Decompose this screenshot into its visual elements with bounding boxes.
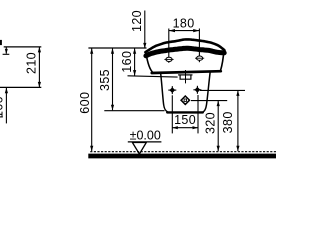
dimension 150 extension lines [171, 95, 173, 133]
datum underline [128, 141, 162, 143]
svg-text:355: 355 [98, 69, 112, 91]
extension line y110.7 [104, 110, 164, 112]
overflow tab centerline [185, 70, 187, 83]
svg-text:150: 150 [174, 113, 196, 127]
pedestal right edge [202, 72, 210, 113]
extension tick y54 left [3, 53, 10, 55]
pedestal hole upper-left [168, 86, 176, 94]
basin rim dome [145, 39, 224, 52]
svg-text:±0.00: ±0.00 [130, 128, 161, 142]
left lower dimension line with up arrow [5, 88, 7, 124]
dimension 320 line [217, 101, 219, 152]
pedestal hole center [181, 96, 190, 105]
extension line y87.4 left [0, 86, 41, 88]
dimension 120 line with down arrow [144, 11, 146, 49]
svg-text:120: 120 [130, 10, 144, 32]
small left dimension line with down arrow [5, 47, 7, 54]
basin body bottom [152, 71, 221, 73]
dimension 180 extension lines [168, 29, 170, 63]
floor thick line [88, 154, 276, 159]
dimension 210 line [38, 47, 40, 88]
overflow tab rect [180, 75, 191, 79]
overflow tab lip [178, 74, 192, 76]
svg-text:380: 380 [221, 111, 235, 133]
pedestal bottom [167, 111, 203, 113]
datum triangle [132, 143, 146, 155]
svg-text:210: 210 [25, 52, 39, 74]
svg-text:320: 320 [203, 112, 217, 134]
basin body right side [221, 50, 225, 71]
svg-text:160: 160 [120, 51, 134, 73]
dimension 380 extension line [200, 89, 245, 91]
dimension 180 line [169, 30, 200, 32]
extension line y47 left [4, 46, 42, 48]
dimension 355 line [112, 48, 114, 110]
tap hole left [164, 57, 173, 61]
rim-level extension line [88, 47, 146, 49]
svg-text:100: 100 [0, 96, 5, 118]
pedestal left edge [161, 74, 169, 113]
basin rim front band [146, 48, 224, 56]
partial glyph fragment top-left edge [0, 40, 2, 45]
pedestal hole upper-right [193, 86, 201, 94]
tap hole right [195, 56, 204, 60]
dimension 600 line [91, 48, 93, 151]
partial label 100 clipped at left edge [0, 116, 3, 118]
floor hatch dashed line [90, 151, 276, 153]
basin body left side [146, 53, 153, 72]
extension line y75.6 [128, 76, 178, 77]
dimension 380 line [237, 90, 239, 151]
svg-text:180: 180 [173, 16, 195, 30]
svg-text:600: 600 [78, 92, 92, 114]
dimension 320 extension line [191, 100, 227, 102]
dimension 150 line [172, 127, 198, 129]
dimension 160 line [134, 48, 136, 75]
